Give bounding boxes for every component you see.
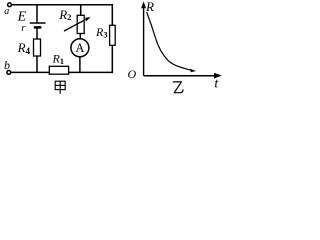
decay curve R(t): [147, 12, 192, 70]
resistor R3 box: [110, 25, 116, 45]
wire: battery branch drop from top rail: [36, 5, 38, 23]
wire: R2 branch drop from top rail: [80, 5, 82, 16]
curve arrowhead: [190, 69, 196, 73]
rheostat R2 box: [77, 15, 84, 33]
terminal b: [7, 71, 11, 75]
rheostat R2 arrow: [64, 17, 91, 31]
graph: x-axis t: [144, 75, 219, 77]
wire: R4 to bottom rail: [36, 56, 38, 73]
svg-text:A: A: [75, 41, 84, 55]
ammeter A: [71, 39, 89, 57]
terminal a: [8, 3, 12, 7]
wire: battery to R4: [36, 27, 38, 39]
caption 甲 (figure A) drawn as strokes: [55, 81, 65, 94]
svg-text:a: a: [4, 6, 9, 17]
resistor R4 box: [34, 39, 41, 56]
graph: y-axis R: [143, 4, 145, 76]
wire: ammeter to bottom rail: [79, 57, 81, 73]
wire: right branch top: [111, 4, 113, 25]
svg-text:r: r: [21, 22, 26, 34]
battery E r: long plate: [30, 22, 46, 24]
svg-text:b: b: [4, 58, 10, 72]
battery E r: short thick plate: [34, 26, 42, 29]
wire: R2 to ammeter: [79, 34, 81, 40]
svg-text:R: R: [145, 0, 154, 14]
wire: top rail from a to right corner: [12, 4, 113, 6]
wire: bottom rail from b to right corner: [11, 71, 113, 73]
svg-text:O: O: [128, 67, 137, 81]
resistor R1 box: [49, 66, 68, 74]
caption 乙 (figure B) drawn as strokes: [173, 82, 183, 93]
wire: right branch bottom: [111, 45, 113, 73]
